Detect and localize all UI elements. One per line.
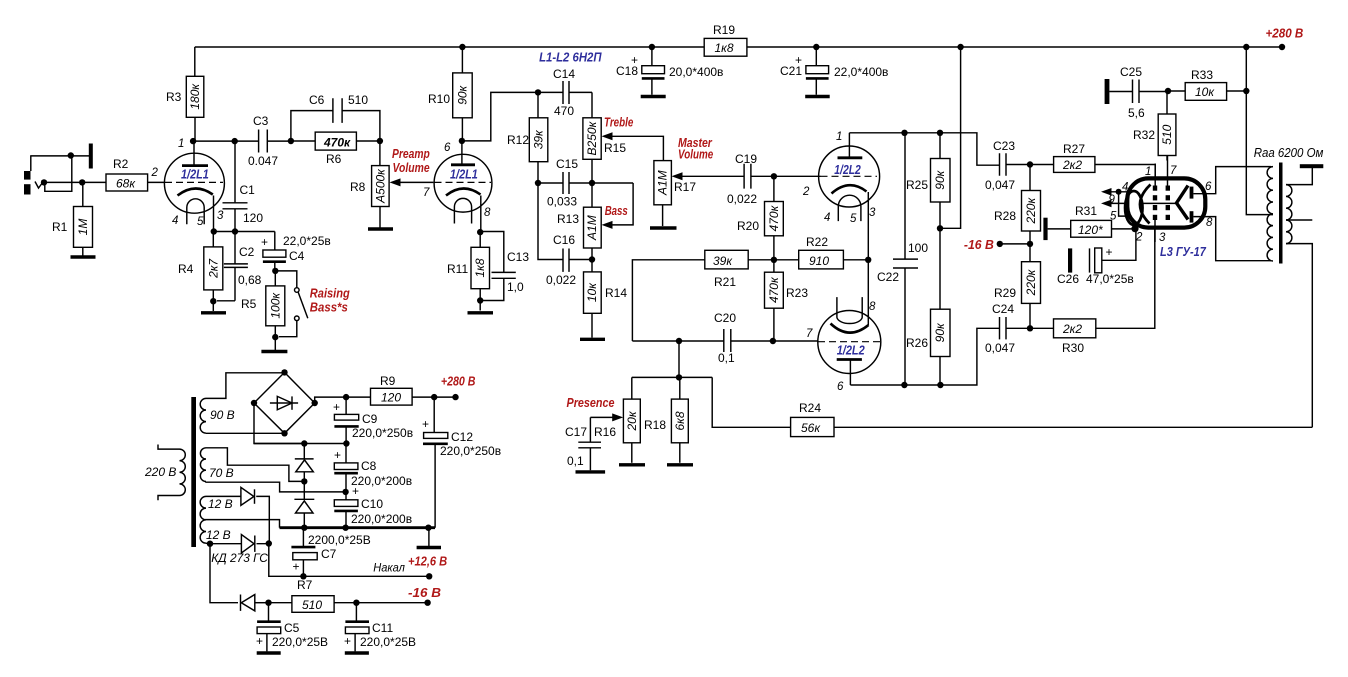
- resistor R12: [507, 92, 548, 183]
- svg-text:R31: R31: [1075, 204, 1097, 218]
- svg-text:+: +: [261, 235, 268, 249]
- svg-text:+: +: [333, 400, 340, 414]
- svg-text:8: 8: [484, 207, 491, 219]
- node: tube2 anode node: [459, 138, 465, 144]
- capacitor C9 electrolytic: [333, 397, 413, 443]
- wire: anode to C14 row: [462, 92, 538, 141]
- potentiometer R16 Presence: [590, 399, 640, 463]
- node: rail junction at C18: [649, 44, 655, 50]
- svg-text:R23: R23: [786, 286, 808, 300]
- svg-text:R3: R3: [166, 90, 182, 104]
- svg-text:Raising: Raising: [310, 287, 350, 301]
- capacitor C8 electrolytic: [334, 444, 412, 492]
- svg-text:R15: R15: [604, 141, 626, 155]
- svg-text:R13: R13: [557, 212, 579, 226]
- node: presence junction dot: [676, 374, 682, 380]
- svg-text:7: 7: [806, 328, 813, 340]
- diode D4: [210, 535, 269, 553]
- capacitor C10 electrolytic: [334, 484, 412, 528]
- svg-text:C5: C5: [284, 621, 300, 635]
- diode D5: [241, 595, 269, 611]
- svg-text:R17: R17: [674, 180, 696, 194]
- svg-text:0,047: 0,047: [985, 178, 1015, 192]
- svg-text:0,1: 0,1: [718, 351, 735, 365]
- potentiometer R15 Treble: [583, 92, 664, 210]
- svg-text:R21: R21: [714, 275, 736, 289]
- transformer: output primary: [1267, 167, 1273, 261]
- svg-text:39к: 39к: [713, 254, 733, 268]
- capacitor C4 electrolytic: [261, 234, 331, 271]
- wire: 90V top to bridge: [206, 373, 285, 399]
- svg-text:2к7: 2к7: [206, 258, 220, 279]
- node: R12 bottom dot: [535, 180, 541, 186]
- node: R22 right dot: [865, 257, 871, 263]
- svg-text:12 В: 12 В: [206, 528, 231, 542]
- node: C9 top dot: [343, 394, 349, 400]
- svg-text:8: 8: [869, 301, 876, 313]
- resistor R1: [52, 182, 93, 255]
- svg-text:1,0: 1,0: [507, 280, 524, 294]
- svg-text:120: 120: [243, 211, 263, 225]
- wire: C9 bottom row: [254, 443, 346, 445]
- svg-text:6: 6: [1205, 181, 1212, 193]
- node: pin2 node ГУ-17: [1131, 225, 1138, 232]
- svg-text:4: 4: [824, 212, 830, 224]
- node: +280V PSU terminal: [452, 394, 458, 400]
- node: -16V PSU terminal: [424, 600, 430, 606]
- capacitor C1: [223, 141, 264, 231]
- node: R20/R21/R22/R23 dot: [771, 257, 777, 263]
- wire: pin2 to C26: [1102, 229, 1136, 261]
- node: cathode node tube2: [477, 229, 483, 235]
- node: R15/R13 dot: [589, 180, 595, 186]
- node: R25/R26 midpoint dot: [937, 225, 943, 231]
- svg-text:R18: R18: [644, 418, 666, 432]
- resistor R25: [906, 133, 950, 229]
- svg-text:Presence: Presence: [567, 396, 615, 410]
- diode D3: [206, 487, 269, 543]
- svg-text:470к: 470к: [767, 276, 781, 303]
- svg-text:Volume: Volume: [393, 161, 430, 175]
- ground (R17): [650, 226, 677, 229]
- resistor R3: [166, 47, 204, 141]
- ground (R4): [212, 301, 214, 311]
- node: R33/B+ dot: [1243, 88, 1249, 94]
- svg-text:6: 6: [444, 142, 451, 154]
- node: D5 out dot: [265, 600, 271, 606]
- resistor R33: [1168, 68, 1246, 100]
- node: R13 bottom / R14 top dot: [589, 256, 595, 262]
- svg-text:-16 В: -16 В: [408, 586, 441, 600]
- svg-text:470к: 470к: [323, 136, 351, 150]
- node: input tip node: [41, 179, 47, 185]
- svg-text:R11: R11: [447, 262, 468, 276]
- diode D2: [294, 481, 314, 527]
- svg-text:2: 2: [151, 167, 159, 179]
- wire: 12V center tap to bus: [204, 520, 280, 528]
- ground (C17): [576, 470, 606, 473]
- svg-text:5,6: 5,6: [1128, 106, 1145, 120]
- svg-text:L3 ГУ-17: L3 ГУ-17: [1160, 245, 1207, 259]
- svg-text:R6: R6: [326, 152, 342, 166]
- node: D1 top dot: [301, 440, 307, 446]
- node: bridge right corner: [312, 400, 318, 406]
- ground (C18): [641, 95, 666, 98]
- svg-text:47,0*25в: 47,0*25в: [1086, 272, 1134, 286]
- switch Raising Bass: [275, 271, 350, 337]
- node: rail junction at PI feed: [957, 44, 963, 50]
- node: R6/R8 node: [377, 138, 383, 144]
- svg-text:Volume: Volume: [678, 147, 713, 161]
- svg-text:6к8: 6к8: [673, 411, 687, 430]
- node: rail junction at R10: [459, 44, 465, 50]
- svg-text:220,0*200в: 220,0*200в: [351, 474, 412, 488]
- svg-text:Bass*s: Bass*s: [310, 301, 348, 315]
- svg-text:1/2L2: 1/2L2: [834, 163, 861, 177]
- svg-text:C26: C26: [1057, 272, 1079, 286]
- svg-text:C4: C4: [289, 249, 305, 263]
- transformer: secondary 70V: [200, 448, 206, 482]
- node: C11 top dot: [353, 600, 359, 606]
- svg-text:C21: C21: [780, 64, 802, 78]
- svg-text:5: 5: [1110, 211, 1117, 223]
- wire: tone row (C15): [538, 182, 633, 184]
- resistor R19: [704, 23, 747, 56]
- node: rail junction at C21: [813, 44, 819, 50]
- svg-text:R12: R12: [507, 133, 529, 147]
- svg-text:+: +: [256, 634, 263, 648]
- capacitor C22: [877, 133, 928, 385]
- svg-text:7: 7: [423, 187, 430, 199]
- resistor R5: [241, 271, 285, 337]
- svg-text:4: 4: [1122, 182, 1128, 194]
- svg-text:C2: C2: [239, 245, 255, 259]
- wire: bottom row (L2b anode): [850, 328, 999, 385]
- svg-text:0,047: 0,047: [985, 341, 1015, 355]
- node: R28/R29 dot: [1027, 241, 1033, 247]
- svg-text:C8: C8: [361, 459, 377, 473]
- diode D1: [295, 444, 314, 482]
- node: bottom row C22 dot: [901, 382, 907, 388]
- svg-text:510: 510: [348, 93, 368, 107]
- resistor R14: [584, 272, 628, 338]
- node: C24/R29/R30 dot: [1027, 325, 1033, 331]
- svg-text:20,0*400в: 20,0*400в: [669, 65, 723, 79]
- wire: L2a anode row: [849, 133, 999, 165]
- svg-text:56к: 56к: [801, 421, 821, 435]
- svg-text:0,68: 0,68: [238, 273, 262, 287]
- svg-text:2: 2: [1135, 232, 1143, 244]
- svg-text:2: 2: [802, 186, 810, 198]
- resistor R11: [447, 232, 490, 300]
- ground: chassis bar at C26: [1068, 248, 1072, 272]
- svg-text:470: 470: [554, 104, 574, 118]
- svg-text:910: 910: [809, 254, 829, 268]
- svg-text:39к: 39к: [531, 129, 545, 149]
- capacitor C25: [1109, 65, 1168, 120]
- svg-text:C18: C18: [616, 64, 638, 78]
- node: C23 out dot: [1027, 161, 1033, 167]
- capacitor C15: [547, 157, 578, 209]
- ground (bus/C12): [428, 528, 430, 546]
- svg-text:1M: 1M: [76, 219, 90, 236]
- resistor R21: [632, 250, 774, 341]
- svg-text:Treble: Treble: [604, 116, 633, 130]
- svg-text:1: 1: [178, 138, 184, 150]
- svg-text:C7: C7: [321, 547, 337, 561]
- wire: -16V to divider: [1000, 243, 1030, 245]
- node: bus right dot: [425, 525, 431, 531]
- capacitor C23: [985, 139, 1030, 192]
- node: R4 bottom dot: [210, 298, 216, 304]
- svg-text:3: 3: [217, 210, 224, 222]
- svg-text:+12,6 В: +12,6 В: [408, 555, 447, 569]
- svg-text:Preamp: Preamp: [392, 147, 430, 161]
- svg-text:9: 9: [1109, 194, 1116, 206]
- node: anode row C22 dot: [901, 130, 907, 136]
- svg-text:КД 273 ГС: КД 273 ГС: [211, 551, 268, 565]
- resistor R4: [178, 232, 223, 302]
- svg-text:10к: 10к: [585, 282, 599, 302]
- node: R11 bottom dot: [477, 297, 483, 303]
- wire: jack shorting contact: [45, 156, 72, 191]
- svg-text:2к2: 2к2: [1062, 322, 1082, 336]
- capacitor C18: [616, 47, 723, 95]
- svg-text:R19: R19: [713, 23, 735, 37]
- svg-text:7: 7: [1170, 165, 1177, 177]
- ground (R16): [619, 463, 645, 466]
- rectifier bridge: [254, 372, 315, 433]
- svg-text:22,0*400в: 22,0*400в: [834, 65, 888, 79]
- wire: bridge right to R9 row: [315, 397, 346, 403]
- ground: chassis bar at R31: [1043, 218, 1047, 240]
- node: cathode junction R4: [211, 228, 217, 234]
- svg-text:0,022: 0,022: [546, 273, 576, 287]
- svg-text:510: 510: [1160, 124, 1174, 144]
- capacitor C11 electrolytic: [344, 603, 416, 652]
- wire: L2a cathode to L2b: [867, 192, 869, 325]
- node: R5 bottom dot: [272, 334, 278, 340]
- ground (C5): [257, 651, 281, 654]
- svg-text:20к: 20к: [625, 410, 639, 431]
- svg-text:R29: R29: [994, 286, 1016, 300]
- svg-text:+: +: [422, 417, 429, 431]
- node: anode row R25 dot: [937, 130, 943, 136]
- svg-text:R1: R1: [52, 220, 68, 234]
- transformer: secondary 90V: [200, 398, 206, 433]
- svg-text:1к8: 1к8: [473, 258, 487, 277]
- svg-text:100к: 100к: [268, 292, 282, 319]
- svg-text:R8: R8: [350, 180, 366, 194]
- wire: cathode row tube1: [214, 232, 275, 250]
- wire: presence row: [632, 341, 791, 427]
- svg-text:1/2L2: 1/2L2: [837, 344, 865, 358]
- svg-text:-16 В: -16 В: [964, 238, 994, 252]
- svg-text:4: 4: [172, 215, 178, 227]
- wire: heater ground bus (thick): [280, 526, 436, 529]
- ground (R1): [71, 255, 96, 258]
- svg-text:R2: R2: [113, 157, 129, 171]
- svg-text:А500к: А500к: [373, 168, 387, 204]
- wire: input to R2: [44, 181, 106, 183]
- wire: pin 8 to transformer: [1205, 217, 1271, 261]
- svg-text:R24: R24: [799, 401, 821, 415]
- svg-text:C17: C17: [565, 425, 587, 439]
- svg-text:220,0*200в: 220,0*200в: [351, 512, 412, 526]
- svg-text:120: 120: [381, 391, 401, 405]
- capacitor C16: [546, 233, 576, 287]
- svg-text:3: 3: [869, 207, 876, 219]
- svg-text:22,0*25в: 22,0*25в: [283, 234, 331, 248]
- ground (R8): [368, 227, 393, 230]
- node: D1/D2 junction: [301, 478, 307, 484]
- svg-text:C12: C12: [451, 430, 473, 444]
- node: jack sleeve junction: [68, 152, 74, 158]
- svg-text:220 В: 220 В: [144, 465, 176, 479]
- svg-text:90к: 90к: [933, 322, 947, 342]
- node: C1 top dot: [232, 138, 238, 144]
- svg-text:R16: R16: [594, 425, 616, 439]
- svg-text:В250к: В250к: [585, 120, 599, 155]
- capacitor C17: [565, 417, 601, 470]
- resistor R10: [428, 47, 472, 141]
- svg-text:R33: R33: [1191, 68, 1213, 82]
- svg-text:12 В: 12 В: [208, 497, 233, 511]
- node: rail junction at output transformer: [1243, 44, 1249, 50]
- svg-text:C20: C20: [714, 311, 736, 325]
- svg-text:5: 5: [197, 216, 204, 228]
- svg-text:1/2L1: 1/2L1: [181, 168, 209, 182]
- svg-text:R26: R26: [906, 336, 928, 350]
- wire: grid wire to L2a: [774, 175, 821, 177]
- svg-text:C15: C15: [556, 157, 578, 171]
- svg-text:100: 100: [908, 241, 928, 255]
- tube V2a triode 1/2L2: [802, 131, 880, 225]
- svg-text:R7: R7: [297, 578, 313, 592]
- resistor R20: [737, 176, 783, 259]
- tube V1b triode 1/2L1: [423, 141, 492, 232]
- wire: rectified heater to C7: [269, 544, 304, 577]
- resistor R31: [1048, 204, 1134, 237]
- svg-text:120*: 120*: [1078, 223, 1103, 237]
- svg-text:0,1: 0,1: [567, 454, 584, 468]
- capacitor C7 electrolytic: [291, 528, 370, 577]
- svg-text:220,0*25В: 220,0*25В: [360, 635, 416, 649]
- svg-text:C3: C3: [253, 114, 269, 128]
- pin 4/5/9 heater arrows: [1101, 182, 1131, 223]
- svg-text:+: +: [1106, 245, 1113, 259]
- svg-text:1: 1: [1145, 166, 1151, 178]
- svg-text:70 В: 70 В: [209, 466, 234, 480]
- svg-text:2к2: 2к2: [1062, 158, 1082, 172]
- svg-text:C1: C1: [240, 183, 256, 197]
- capacitor C5 electrolytic: [256, 603, 328, 652]
- resistor R32: [1133, 91, 1176, 161]
- svg-text:510: 510: [302, 598, 322, 612]
- node: C20 left dot: [676, 338, 682, 344]
- node: +12.6V terminal: [426, 573, 432, 579]
- node: bus D2 dot: [301, 525, 307, 531]
- node: C3 out dot: [288, 138, 294, 144]
- node: C4/R5 junction: [272, 268, 278, 274]
- capacitor C3: [248, 114, 278, 168]
- node: bridge bottom corner: [281, 430, 287, 436]
- wire: C16 branch: [538, 183, 592, 272]
- wire: B+ feed to PI: [940, 47, 961, 228]
- svg-text:0.047: 0.047: [248, 154, 278, 168]
- svg-text:R32: R32: [1133, 128, 1155, 142]
- resistor R26: [906, 228, 950, 385]
- svg-text:90к: 90к: [455, 84, 469, 104]
- resistor R27: [1030, 142, 1155, 178]
- node: R1 top junction: [79, 179, 85, 185]
- node: D3/D4 output dot: [266, 540, 272, 546]
- wire: B+ to output transformer CT: [1246, 47, 1273, 215]
- potentiometer R8: [350, 141, 433, 228]
- input jack connector: [24, 156, 89, 195]
- ground (C11): [345, 651, 369, 654]
- svg-text:+: +: [344, 634, 351, 648]
- ground: input chassis bar: [89, 144, 93, 169]
- potentiometer R17 Master: [654, 161, 744, 227]
- svg-text:C9: C9: [362, 412, 378, 426]
- svg-text:68к: 68к: [116, 177, 136, 191]
- node: +280V terminal: [1279, 44, 1285, 50]
- svg-text:0,022: 0,022: [727, 192, 757, 206]
- capacitor C2: [217, 232, 262, 301]
- svg-text:R25: R25: [906, 178, 928, 192]
- svg-text:C25: C25: [1120, 65, 1142, 79]
- svg-text:L1-L2 6Н2П: L1-L2 6Н2П: [539, 51, 602, 65]
- capacitor C13: [480, 232, 529, 301]
- resistor R22: [774, 235, 868, 269]
- ground (C21): [805, 95, 830, 98]
- svg-text:R28: R28: [994, 209, 1016, 223]
- resistor R29: [994, 244, 1041, 328]
- transformer: secondary 12+12V: [200, 496, 206, 543]
- svg-text:C23: C23: [993, 139, 1015, 153]
- svg-text:C11: C11: [372, 621, 393, 635]
- node: bottom row R26 dot: [937, 382, 943, 388]
- svg-text:R5: R5: [241, 297, 257, 311]
- transformer: output core: [1279, 163, 1283, 264]
- node: C8 bottom / C10 top dot: [342, 489, 348, 495]
- svg-text:220к: 220к: [1024, 197, 1038, 225]
- svg-text:+: +: [334, 448, 341, 462]
- svg-text:5: 5: [850, 213, 857, 225]
- capacitor C14: [538, 67, 592, 118]
- node: -16V terminal dot: [997, 241, 1003, 247]
- capacitor C19: [727, 152, 774, 206]
- svg-text:+280 В: +280 В: [1266, 27, 1304, 41]
- svg-text:R4: R4: [178, 262, 194, 276]
- capacitor C24: [985, 302, 1030, 355]
- svg-text:90к: 90к: [933, 169, 947, 189]
- ground: chassis bar at C25: [1105, 79, 1110, 104]
- svg-text:3: 3: [1159, 232, 1166, 244]
- ground (R5/switch): [274, 337, 276, 350]
- svg-text:Накал: Накал: [373, 561, 405, 575]
- wire: pin 6 to transformer: [1205, 167, 1271, 194]
- svg-text:1: 1: [836, 131, 842, 143]
- wire: bridge left corner down to D-chain row: [254, 403, 304, 444]
- wire: secondary mid tap: [1286, 219, 1312, 221]
- capacitor C12 electrolytic: [422, 397, 501, 528]
- node: C12 top dot: [431, 394, 437, 400]
- ground: speaker common (bar): [1300, 164, 1324, 168]
- tube L3 ГУ-17: [1125, 156, 1205, 245]
- transformer: mains primary 220V: [158, 445, 185, 501]
